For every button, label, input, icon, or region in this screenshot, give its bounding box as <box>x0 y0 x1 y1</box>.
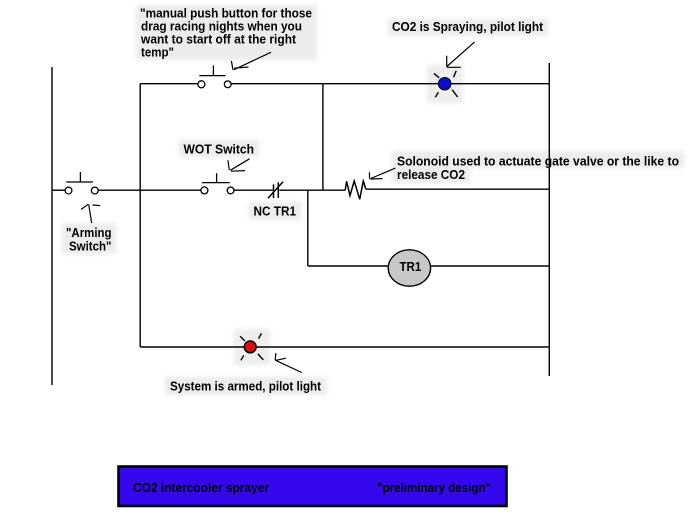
wire main rung: WOT to NC TR1 <box>234 189 273 191</box>
wire vertical x=323 (top rung to main rung) <box>322 84 324 191</box>
arrow to WOT switch <box>228 159 250 171</box>
svg-text:TR1: TR1 <box>400 259 422 274</box>
relay coil TR1 <box>388 250 430 286</box>
wire main rung: NC TR1 to solenoid <box>279 189 345 191</box>
solenoid coil (zigzag) <box>345 181 367 199</box>
svg-text:"preliminary design": "preliminary design" <box>377 480 491 495</box>
blue light rays <box>434 71 458 98</box>
arrow to arming switch <box>81 204 100 223</box>
svg-text:CO2 intercooler sprayer: CO2 intercooler sprayer <box>133 480 269 495</box>
wire left rail <box>51 67 53 385</box>
NC TR1 contact <box>268 182 283 199</box>
arming switch <box>65 172 98 194</box>
arrow to solenoid <box>369 168 395 179</box>
wire vertical x=308 (main rung to TR1 rung) <box>307 190 309 266</box>
wire bottom rung <box>140 346 549 348</box>
pilot light blue (CO2 spraying) <box>439 78 451 90</box>
manual push button <box>198 66 231 88</box>
title bar <box>119 467 507 507</box>
wire branch vertical (left branch) <box>139 84 141 347</box>
wire top rung left segment <box>140 83 198 85</box>
svg-text:release CO2: release CO2 <box>397 167 465 182</box>
svg-text:WOT Switch: WOT Switch <box>184 141 255 156</box>
wire right rail <box>548 63 550 376</box>
wire main rung left segment <box>52 189 65 191</box>
arrow to blue light <box>447 42 475 67</box>
svg-text:CO2 is Spraying, pilot light: CO2 is Spraying, pilot light <box>392 19 544 34</box>
svg-text:temp": temp" <box>141 45 174 60</box>
arrow to red light <box>275 353 302 373</box>
svg-text:System is armed, pilot light: System is armed, pilot light <box>170 379 322 394</box>
svg-text:NC TR1: NC TR1 <box>254 204 297 219</box>
wire main rung: arming switch to WOT switch <box>99 189 201 191</box>
wire top rung middle segment <box>231 83 549 85</box>
arrow to push button <box>231 52 271 70</box>
wire main rung: solenoid to right rail <box>367 188 549 190</box>
red light rays <box>240 333 263 360</box>
svg-text:Switch": Switch" <box>69 239 112 254</box>
wire TR1 rung <box>308 265 549 267</box>
WOT switch <box>201 173 234 194</box>
pilot light red (system armed) <box>244 341 256 353</box>
